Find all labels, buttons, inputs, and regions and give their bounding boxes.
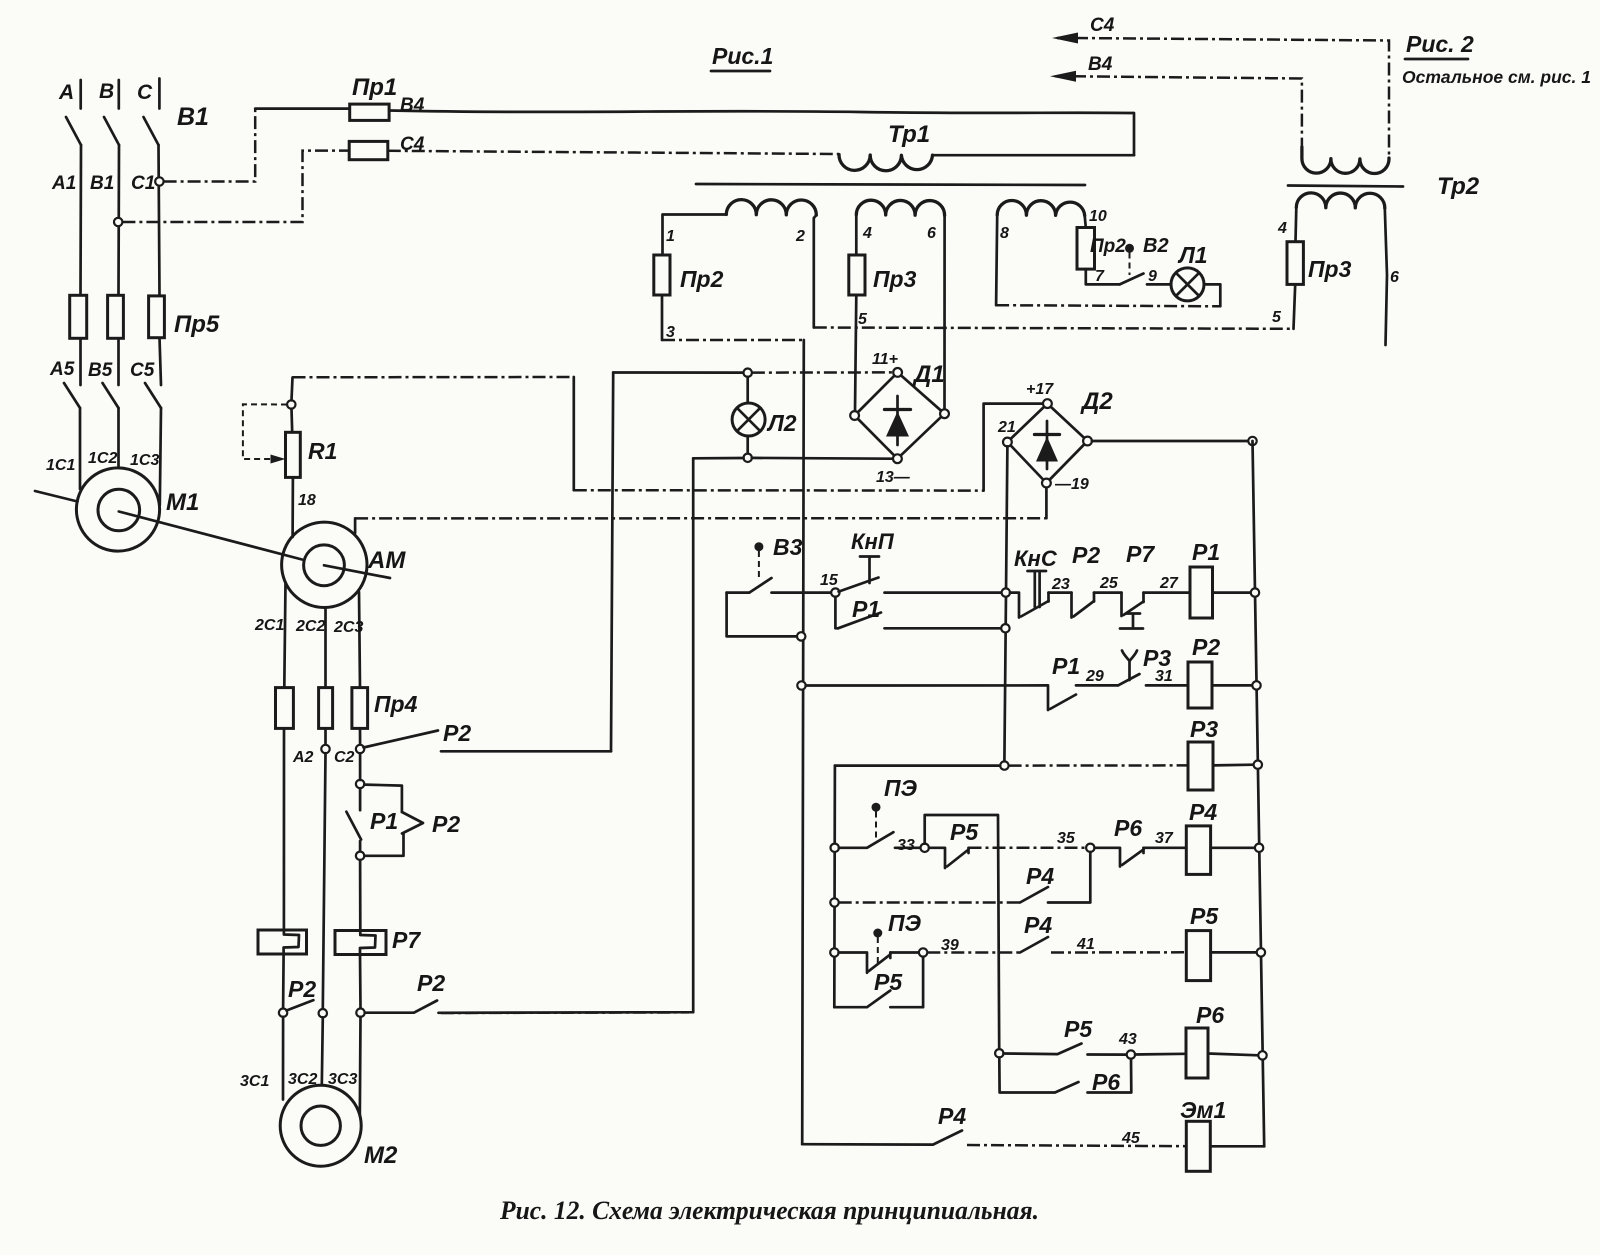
wire terminal 10 (1085, 216, 1086, 228)
svg-text:5: 5 (858, 311, 868, 328)
contact Р4 row5 (1020, 937, 1048, 953)
svg-text:Эм1: Эм1 (1180, 1097, 1226, 1123)
svg-text:45: 45 (1121, 1130, 1141, 1147)
motor M2 (280, 1085, 361, 1166)
contact ПЭ2 (NC row5) (839, 953, 867, 973)
contact ПЭ blade (839, 832, 894, 848)
svg-text:Р2: Р2 (288, 976, 316, 1002)
wire КнП to КнС (885, 591, 1002, 594)
switch B1 (3-phase knife switch) (64, 79, 161, 409)
svg-text:11+: 11+ (872, 351, 898, 368)
wire 39 (890, 951, 919, 954)
wire phase B to M1 (117, 408, 120, 468)
svg-text:Д2: Д2 (1080, 388, 1113, 415)
svg-text:АМ: АМ (367, 547, 406, 574)
relay coil Р1 (1190, 567, 1213, 618)
wire phase B (117, 145, 120, 295)
svg-text:Рис. 12. Схема электрическая п: Рис. 12. Схема электрическая принципиаль… (499, 1196, 1039, 1225)
node 43 left (995, 1049, 1003, 1057)
switch B3 dot (754, 542, 763, 551)
wire Тр2 terminal 4 (1294, 208, 1298, 242)
node 3C1 (279, 1009, 287, 1017)
Тр1 secondary winding 4-6 (856, 200, 944, 215)
diode bridge Д1 (850, 368, 949, 463)
svg-text:3С3: 3С3 (328, 1071, 357, 1088)
wire Л1 right (1204, 283, 1220, 286)
wire Тр2 terminal 6 (1385, 208, 1387, 345)
node row2 left (797, 681, 805, 689)
svg-text:Остальное см. рис. 1: Остальное см. рис. 1 (1402, 67, 1591, 87)
svg-text:3: 3 (666, 324, 675, 341)
terminal B bar (117, 80, 120, 109)
wire coil Р3 to rail (1213, 763, 1254, 766)
svg-text:С: С (137, 81, 153, 104)
node on left rail (B3 loop) (797, 632, 805, 640)
svg-text:10: 10 (1089, 208, 1107, 225)
wire 45 (967, 1145, 1186, 1146)
svg-text:1С2: 1С2 (88, 450, 117, 467)
svg-text:Л1: Л1 (1177, 242, 1208, 268)
wire B node to fuse C4 (122, 151, 349, 222)
B1 blade phase A (66, 117, 81, 145)
svg-text:2С3: 2С3 (333, 619, 363, 636)
wire Л2 top to Д1 11 (752, 371, 894, 374)
svg-text:29: 29 (1085, 668, 1104, 685)
svg-text:Тр2: Тр2 (1437, 173, 1480, 200)
ladder left rail (833, 766, 836, 1008)
node 3C3 (356, 1009, 364, 1017)
wire Тр1 primary right (933, 154, 1135, 157)
svg-text:27: 27 (1159, 575, 1179, 592)
heater Р7 right (335, 931, 386, 955)
wire node43 to coil Р6 (1135, 1052, 1186, 1055)
svg-text:2: 2 (795, 228, 805, 245)
node below C2 (356, 780, 364, 788)
wire row3 (835, 764, 1000, 767)
wire lamp Л1 bottom rail (996, 305, 1220, 306)
contact Р2 (3C1-3C2) (287, 1000, 314, 1010)
node 3C2 (319, 1009, 327, 1017)
svg-text:15: 15 (820, 572, 839, 589)
svg-text:7: 7 (1095, 268, 1105, 285)
wire coil Р1 to rail (1213, 591, 1251, 594)
wire 31 (1146, 684, 1188, 687)
wire 33 (895, 846, 921, 849)
svg-text:В4: В4 (1088, 54, 1113, 75)
wire phase B lower (117, 338, 120, 385)
relay coil Р2 (1188, 662, 1212, 708)
wire 2C3 down (359, 860, 362, 931)
fuse C4 (349, 141, 388, 159)
svg-text:Р4: Р4 (1024, 912, 1052, 938)
wire B4 arrow to Тр2 (1056, 75, 1073, 78)
wire Р5 bypass jump (925, 815, 1000, 1049)
wire coil Р5 to rail (1211, 951, 1257, 954)
switch B2 actuator (1129, 253, 1131, 276)
svg-text:6: 6 (927, 225, 936, 242)
svg-text:А1: А1 (51, 173, 76, 194)
wire Эм1 to rail (1210, 1145, 1264, 1148)
arrow head B4 (1050, 71, 1076, 82)
wire Д2 right to rail (1092, 440, 1253, 443)
Тр2 core (1288, 186, 1403, 187)
node R1 top (287, 400, 295, 408)
svg-text:Р6: Р6 (1092, 1069, 1120, 1095)
wire 3 to left rail of relay circuit (662, 339, 804, 342)
svg-text:Р5: Р5 (1190, 903, 1219, 929)
wire 25 (1094, 591, 1122, 594)
relay coil Р5 (1186, 931, 1210, 981)
transformer Тр1 primary winding (839, 155, 933, 171)
svg-text:Р2: Р2 (1192, 634, 1220, 660)
svg-text:В4: В4 (400, 95, 425, 116)
svg-text:Пр1: Пр1 (352, 74, 397, 101)
wire R1 to Д2 plus17 (292, 378, 293, 401)
svg-text:Пр2: Пр2 (1090, 236, 1126, 257)
wire 2C2 down (323, 753, 326, 1009)
wire DC rail to Л2 and Д1 13 (613, 371, 743, 374)
button КнП (860, 557, 879, 584)
node 39 (919, 948, 927, 956)
svg-text:КнП: КнП (851, 529, 895, 554)
contact Р1 (in 2C3 line) (359, 753, 362, 780)
svg-text:С5: С5 (130, 360, 155, 381)
wire 9 to lamp Л1 (1147, 283, 1171, 286)
svg-text:8: 8 (1000, 225, 1009, 242)
wire 3C1 to M2 (282, 1017, 285, 1100)
switch B2 dot (1125, 244, 1134, 253)
contact Р5 row6 (1004, 1044, 1082, 1055)
svg-text:Р2: Р2 (1072, 542, 1100, 568)
lamp Л2 (744, 369, 752, 377)
relay coil Р3 (1188, 742, 1213, 790)
fuse Пр5 phase B (108, 295, 124, 338)
contact Р1 (row2) (1050, 695, 1076, 710)
heater Р7 left (258, 930, 307, 954)
fuse Пр5 phase A (70, 295, 87, 338)
node B phase junction (114, 218, 122, 226)
svg-text:Р3: Р3 (1190, 716, 1218, 742)
wire 13 rail (693, 457, 893, 461)
switch ПЭ2 dot (873, 929, 882, 938)
wire DC brake vertical (439, 458, 694, 1013)
svg-text:4: 4 (862, 225, 872, 242)
contact Р1 self-hold (835, 597, 838, 629)
svg-text:R1: R1 (308, 438, 337, 464)
wire row2 (806, 685, 1048, 710)
wire terminal 8 (996, 215, 997, 305)
wire phase C lower (160, 338, 162, 386)
svg-text:33: 33 (897, 837, 915, 854)
node 33 (921, 844, 929, 852)
wire 2C3 from AM (359, 592, 360, 688)
svg-text:Пр3: Пр3 (873, 266, 917, 292)
svg-text:Р5: Р5 (1064, 1016, 1093, 1042)
fuse Пр4 phase 3 (352, 688, 368, 729)
contact Р6 bypass (999, 1058, 1078, 1093)
fuse Пр4 phase 2 (319, 688, 333, 729)
button КнС (1028, 571, 1047, 607)
svg-text:Рис. 2: Рис. 2 (1406, 31, 1474, 57)
wire AM to Д2 minus19 (354, 518, 357, 533)
contact Р7 (thermal NC) (1120, 593, 1123, 616)
node 21 rail (1002, 588, 1010, 596)
wire right rail (1253, 441, 1265, 1146)
svg-text:Р6: Р6 (1196, 1002, 1224, 1028)
svg-text:Д1: Д1 (912, 361, 945, 388)
svg-text:4: 4 (1277, 220, 1287, 237)
wire 41 (1051, 951, 1186, 954)
node row3 ladder left vertical (1000, 761, 1008, 769)
svg-text:+17: +17 (1026, 381, 1054, 398)
wire 37 (1144, 846, 1187, 849)
svg-text:Р4: Р4 (1189, 799, 1217, 825)
electromagnet coil Эм1 (1186, 1121, 1210, 1171)
wire coil Р4 to rail (1211, 846, 1255, 849)
Тр1 secondary winding 8-10 (997, 200, 1084, 215)
svg-text:9: 9 (1148, 268, 1157, 285)
contact Р2 (NC) (1070, 593, 1073, 618)
fuse Пр2 (654, 255, 670, 295)
wire B4 from Пр1 to Тр1 (389, 111, 1134, 156)
diode bridge Д2 (1003, 399, 1092, 487)
svg-text:43: 43 (1118, 1031, 1137, 1048)
svg-text:Тр1: Тр1 (888, 121, 930, 148)
rheostat R1 (286, 432, 301, 477)
svg-text:Пр2: Пр2 (680, 266, 724, 292)
svg-text:Р1: Р1 (1192, 539, 1220, 565)
node C2 (356, 745, 364, 753)
fuse Пр5 phase C (149, 296, 165, 338)
svg-text:А: А (58, 81, 74, 104)
wire Д2 21 down to ladder (1004, 446, 1007, 761)
contact Р6 (NC row4) (1095, 848, 1121, 867)
contact Р3 (row2 button) (1118, 674, 1140, 685)
svg-text:М2: М2 (364, 1142, 398, 1169)
svg-text:Р6: Р6 (1114, 815, 1142, 841)
arrow head C4 (1052, 33, 1078, 44)
wire C1 to fuse Пр1 (164, 109, 256, 182)
wire 27 (1144, 591, 1191, 594)
svg-text:Р7: Р7 (392, 927, 421, 953)
wire 35 (969, 847, 1087, 850)
svg-text:39: 39 (941, 937, 959, 954)
svg-text:Р5: Р5 (874, 969, 903, 995)
wire coil Р2 to rail (1212, 684, 1252, 687)
svg-text:Р1: Р1 (370, 808, 398, 834)
svg-text:Пр4: Пр4 (374, 691, 418, 717)
svg-text:Р7: Р7 (1126, 541, 1155, 567)
svg-text:Р1: Р1 (1052, 653, 1080, 679)
svg-text:В5: В5 (88, 360, 113, 381)
svg-text:В1: В1 (177, 103, 209, 131)
wire 2C2 from AM (324, 608, 327, 688)
wire terminal 5 to Д1 (855, 295, 856, 412)
contact КнС (1010, 593, 1019, 618)
B1 lower blade phase A (64, 383, 80, 408)
lamp Л1 (1171, 268, 1204, 301)
wire 43 (1088, 1053, 1127, 1056)
svg-text:1С1: 1С1 (46, 457, 75, 474)
svg-text:6: 6 (1390, 269, 1399, 286)
svg-text:Р2: Р2 (443, 720, 471, 746)
wire 3C3 (359, 955, 362, 1009)
wire R1 top (290, 409, 293, 433)
svg-text:Рис.1: Рис.1 (712, 43, 773, 69)
svg-text:31: 31 (1155, 668, 1173, 685)
contact Р4 bypass row (839, 901, 1020, 904)
linkage Р2 (364, 785, 402, 812)
B1 lower blade phase C (145, 383, 161, 408)
svg-text:5: 5 (1272, 309, 1282, 326)
wire Тр2 terminal 5 (1294, 284, 1296, 328)
node 15 (831, 588, 839, 596)
wire phase C (159, 145, 160, 296)
contact Р4 (Эм1 row) (802, 1131, 962, 1145)
svg-text:1: 1 (666, 228, 675, 245)
svg-text:КнС: КнС (1014, 546, 1058, 571)
fuse Пр1 (350, 104, 389, 120)
motor M1 (76, 468, 159, 551)
svg-text:А5: А5 (49, 359, 75, 380)
fuse Пр4 phase 1 (276, 688, 294, 729)
contact Р5 bypass row5 (834, 991, 890, 1008)
fuse Пр2 (lamp circuit) (1077, 228, 1095, 270)
svg-text:Р4: Р4 (938, 1103, 966, 1129)
contact Р2 (to DC rail) (364, 731, 439, 748)
wire terminal 6 to Д1 (943, 215, 946, 409)
svg-text:Р1: Р1 (852, 596, 880, 622)
svg-text:Пр5: Пр5 (174, 311, 220, 338)
wire B3 to node 15 (772, 591, 832, 594)
svg-text:3С2: 3С2 (288, 1071, 317, 1088)
wire R1 wiper loop (243, 404, 287, 459)
wire C4 arrow to Тр2 (1058, 37, 1075, 40)
wire phase A to M1 (79, 408, 82, 489)
transformer Тр2 primary winding (1302, 147, 1389, 174)
svg-text:С4: С4 (400, 134, 425, 155)
svg-text:—19: —19 (1054, 476, 1089, 493)
node A2 (321, 745, 329, 753)
wire terminal 2 (814, 215, 817, 327)
terminal C bar (158, 79, 161, 109)
wire 3C1 (282, 954, 285, 1009)
wire terminal 3 (661, 295, 664, 340)
shaft M1-AM (35, 491, 78, 502)
wire 23 (1049, 591, 1072, 594)
wire left rail vertical (802, 340, 804, 1144)
svg-text:С4: С4 (1090, 15, 1115, 36)
wire 3C3 to M2 (358, 1017, 361, 1120)
svg-text:В3: В3 (773, 534, 803, 560)
svg-text:13—: 13— (876, 469, 911, 486)
node rail top (1248, 437, 1256, 445)
switch ПЭ2 actuator (877, 937, 879, 963)
wire C4 from fuse to Тр1 primary (388, 151, 839, 154)
contact Р5 (NC row4) (929, 848, 945, 868)
svg-text:23: 23 (1051, 576, 1070, 593)
Тр2 secondary winding (1296, 193, 1385, 208)
relay coil Р6 (1186, 1028, 1208, 1078)
wire terminal 4 (855, 215, 858, 255)
wire coil Р6 to rail (1208, 1054, 1258, 1056)
Тр1 secondary winding 1-2 (726, 200, 816, 215)
fuse Пр3 (Тр2) (1287, 242, 1303, 285)
svg-text:Р5: Р5 (950, 819, 979, 845)
contact КнП blade (839, 578, 879, 592)
svg-text:37: 37 (1155, 830, 1174, 847)
B1 lower blade phase B (103, 383, 119, 408)
node 35 (1086, 844, 1094, 852)
wire row5 to Р4 contact (927, 951, 1020, 954)
svg-text:С1: С1 (131, 173, 155, 194)
svg-text:21: 21 (997, 419, 1016, 436)
terminal A bar (79, 80, 82, 109)
svg-text:Пр3: Пр3 (1308, 256, 1352, 282)
motor AM (282, 522, 367, 607)
svg-text:Р2: Р2 (417, 970, 445, 996)
svg-text:1С3: 1С3 (130, 452, 159, 469)
arrow R1 wiper (271, 455, 286, 464)
switch B2 blade (1120, 274, 1144, 285)
fuse Пр3 (849, 255, 865, 295)
svg-text:35: 35 (1057, 830, 1076, 847)
svg-text:Л2: Л2 (766, 410, 797, 436)
wire terminal 1 (663, 215, 727, 256)
svg-text:В: В (99, 80, 114, 103)
svg-text:3С1: 3С1 (240, 1073, 269, 1090)
wire terminal 7 (1086, 269, 1120, 284)
svg-text:С2: С2 (334, 749, 355, 766)
svg-text:В1: В1 (90, 173, 114, 194)
wire phase A (79, 145, 82, 295)
relay coil Р4 (1186, 826, 1210, 875)
svg-text:18: 18 (298, 492, 316, 509)
B1 blade phase B (104, 117, 119, 145)
wire B3 left loop (727, 591, 750, 594)
node 43 (1127, 1050, 1135, 1058)
node C1 (155, 177, 163, 185)
svg-text:ПЭ: ПЭ (884, 775, 918, 801)
switch ПЭ dot (872, 803, 881, 812)
svg-text:25: 25 (1099, 575, 1119, 592)
svg-text:2С2: 2С2 (295, 618, 325, 635)
wire 18 R1 to AM (291, 477, 294, 537)
wire below fuses (283, 728, 286, 930)
svg-text:М1: М1 (166, 489, 199, 516)
svg-text:Р4: Р4 (1026, 863, 1054, 889)
svg-text:41: 41 (1076, 936, 1095, 953)
svg-text:Р2: Р2 (432, 811, 460, 837)
switch B3 blade (749, 578, 771, 593)
wire 2 to Тр2 terminal 5 (814, 328, 1294, 329)
svg-text:ПЭ: ПЭ (888, 910, 922, 936)
switch B3 actuator (758, 551, 760, 577)
B1 blade phase C (144, 117, 159, 145)
switch ПЭ actuator (875, 812, 877, 842)
Тр1 core (696, 184, 1085, 185)
wire 3C2 to M2 (322, 1017, 323, 1085)
wire 2C1 from AM (284, 583, 285, 688)
contact Р2 (3C3 to DC) (365, 1001, 437, 1013)
wire phase A lower (79, 338, 82, 385)
svg-text:2С1: 2С1 (254, 617, 284, 634)
wire phase C to M1 (160, 408, 161, 505)
svg-text:В2: В2 (1143, 235, 1169, 257)
svg-text:А2: А2 (292, 749, 314, 766)
